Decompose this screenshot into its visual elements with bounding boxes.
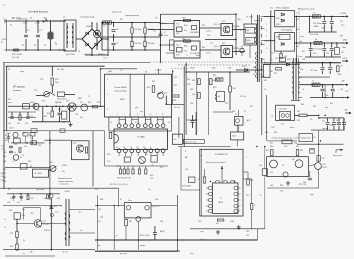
svg-text:С20 1000мк: С20 1000мк xyxy=(313,49,322,51)
svg-text:12: 12 xyxy=(120,70,122,72)
svg-text:L5: L5 xyxy=(312,81,314,83)
svg-text:R13 150к: R13 150к xyxy=(57,69,65,71)
svg-text:R38: R38 xyxy=(233,88,236,90)
svg-text:R11а: R11а xyxy=(184,46,188,48)
svg-text:Х2: Х2 xyxy=(174,139,176,141)
svg-text:С46: С46 xyxy=(284,146,287,148)
svg-text:9: 9 xyxy=(150,147,151,149)
svg-text:R33: R33 xyxy=(190,89,193,91)
svg-text:22н: 22н xyxy=(37,110,40,112)
svg-text:R48: R48 xyxy=(100,199,103,201)
svg-text:у вкл ТВ: у вкл ТВ xyxy=(152,206,159,208)
svg-text:С12: С12 xyxy=(296,19,299,21)
svg-text:С17: С17 xyxy=(340,66,343,68)
svg-text:С12: С12 xyxy=(296,13,299,15)
svg-text:х16В: х16В xyxy=(336,124,340,126)
svg-text:С11 1н: С11 1н xyxy=(206,53,211,55)
svg-text:С41: С41 xyxy=(322,121,325,123)
svg-text:упр. реле: упр. реле xyxy=(120,253,127,255)
svg-text:С16: С16 xyxy=(330,28,333,30)
svg-text:4: 4 xyxy=(137,114,138,116)
svg-text:R40: R40 xyxy=(3,156,6,158)
svg-text:петля: петля xyxy=(103,58,107,60)
svg-text:R26: R26 xyxy=(152,81,155,83)
svg-text:2: 2 xyxy=(124,114,125,116)
svg-text:8: 8 xyxy=(110,70,111,72)
svg-text:Т3.2: Т3.2 xyxy=(246,195,250,197)
svg-text:х160В: х160В xyxy=(313,26,319,28)
svg-text:R57: R57 xyxy=(297,111,300,113)
svg-text:ST1: ST1 xyxy=(120,19,123,21)
svg-text:КТ: КТ xyxy=(240,52,242,54)
svg-text:ВД8: ВД8 xyxy=(247,30,250,32)
svg-text:VD6: VD6 xyxy=(176,55,180,57)
svg-text:С43: С43 xyxy=(185,169,188,171)
svg-text:10н: 10н xyxy=(148,189,151,191)
svg-text:7: 7 xyxy=(156,114,157,116)
svg-text:С37 25мк: С37 25мк xyxy=(310,70,317,72)
svg-text:С31: С31 xyxy=(150,178,153,180)
svg-text:R43: R43 xyxy=(338,74,341,76)
svg-text:R13: R13 xyxy=(55,79,58,81)
svg-text:С39: С39 xyxy=(345,91,348,93)
svg-text:Др: Др xyxy=(300,41,302,43)
svg-text:Др1 2x10мГ: Др1 2x10мГ xyxy=(66,54,75,56)
svg-text:С2,2: С2,2 xyxy=(54,206,57,208)
svg-text:VT4: VT4 xyxy=(66,101,69,103)
svg-text:С19: С19 xyxy=(296,46,299,48)
svg-text:R14: R14 xyxy=(202,47,205,49)
svg-text:VD18: VD18 xyxy=(190,68,194,70)
svg-text:VD15: VD15 xyxy=(30,102,34,104)
svg-text:R47: R47 xyxy=(270,71,273,73)
svg-text:сеть: сеть xyxy=(200,231,204,233)
svg-text:R20 х160В: R20 х160В xyxy=(310,34,318,36)
svg-text:У4 ТЛ431: У4 ТЛ431 xyxy=(34,173,42,175)
svg-text:Т4 СТ-9: Т4 СТ-9 xyxy=(62,252,68,254)
svg-text:деж. кадр: деж. кадр xyxy=(299,184,306,186)
svg-text:R20: R20 xyxy=(97,102,100,104)
svg-text:С33: С33 xyxy=(98,209,101,211)
svg-text:контроллера: контроллера xyxy=(114,91,128,93)
svg-text:R33: R33 xyxy=(192,80,195,82)
svg-text:470: 470 xyxy=(270,172,273,174)
svg-text:R10: R10 xyxy=(182,18,185,20)
svg-text:С1Б: С1Б xyxy=(7,202,10,204)
svg-text:VT8: VT8 xyxy=(323,164,326,166)
svg-text:1,5к: 1,5к xyxy=(1,149,4,151)
svg-text:ТЛ: ТЛ xyxy=(271,116,273,118)
svg-text:R41: R41 xyxy=(52,171,55,173)
svg-text:VD15: VD15 xyxy=(58,109,62,111)
svg-text:Х4: Х4 xyxy=(145,72,147,74)
svg-text:R60: R60 xyxy=(270,146,273,148)
svg-text:Т1.1: Т1.1 xyxy=(176,24,180,26)
svg-text:R57: R57 xyxy=(297,120,300,122)
svg-text:У4: У4 xyxy=(22,155,24,157)
svg-text:С4: С4 xyxy=(78,51,80,53)
svg-text:R40: R40 xyxy=(253,67,256,69)
svg-text:R10а: R10а xyxy=(184,25,188,27)
svg-text:С38: С38 xyxy=(340,89,343,91)
svg-text:С8: С8 xyxy=(153,31,155,33)
svg-text:R8 430к: R8 430к xyxy=(148,43,155,45)
svg-text:+125В: +125В xyxy=(340,13,347,15)
svg-text:Х1: Х1 xyxy=(135,122,137,124)
svg-text:Модуль 2,1В: Модуль 2,1В xyxy=(301,137,310,139)
svg-text:С17: С17 xyxy=(340,21,343,23)
svg-text:X1: X1 xyxy=(10,25,12,27)
svg-text:Пр1 3,15А: Пр1 3,15А xyxy=(12,17,21,20)
svg-text:R56: R56 xyxy=(251,180,254,182)
svg-text:R59: R59 xyxy=(274,132,277,134)
svg-text:R27: R27 xyxy=(174,85,177,87)
svg-text:7: 7 xyxy=(266,42,267,44)
svg-text:У2: У2 xyxy=(235,114,237,116)
svg-text:VD20: VD20 xyxy=(5,135,9,137)
svg-text:R54: R54 xyxy=(10,233,13,235)
svg-text:размагничивание: размагничивание xyxy=(59,181,74,183)
svg-text:У2: У2 xyxy=(244,111,246,113)
svg-text:+: + xyxy=(328,124,329,126)
svg-text:С7: С7 xyxy=(164,32,166,34)
svg-text:Вход строчн.: Вход строчн. xyxy=(333,155,343,157)
svg-text:Позистор: Позистор xyxy=(112,12,122,14)
svg-text:С27: С27 xyxy=(174,77,177,79)
svg-text:С25: С25 xyxy=(3,152,6,154)
svg-text:R26: R26 xyxy=(147,87,150,89)
svg-text:упр.: упр. xyxy=(135,107,139,109)
svg-text:R53: R53 xyxy=(9,210,12,212)
svg-text:Т2 ТПИ: Т2 ТПИ xyxy=(246,17,253,19)
svg-text:1: 1 xyxy=(117,114,118,116)
svg-text:С21: С21 xyxy=(326,53,329,55)
svg-text:У5: У5 xyxy=(146,154,148,156)
svg-text:IC ТДА8: IC ТДА8 xyxy=(137,135,145,138)
svg-text:+18В: +18В xyxy=(342,40,347,42)
svg-text:режима: режима xyxy=(13,90,22,92)
svg-text:R14 1,5: R14 1,5 xyxy=(214,46,220,48)
svg-text:R5 120к: R5 120к xyxy=(135,29,142,31)
svg-text:1к: 1к xyxy=(23,253,25,255)
svg-text:R50 5,1к/1Вт: R50 5,1к/1Вт xyxy=(140,235,150,237)
svg-text:14: 14 xyxy=(116,147,118,149)
svg-text:R64: R64 xyxy=(280,185,283,187)
svg-text:Т2.2: Т2.2 xyxy=(270,8,274,10)
svg-text:С47: С47 xyxy=(322,158,325,160)
svg-text:R18: R18 xyxy=(296,29,299,31)
svg-text:С35: С35 xyxy=(228,68,231,70)
svg-text:R39: R39 xyxy=(30,138,33,140)
svg-text:+: + xyxy=(348,69,349,71)
svg-text:Т1: Т1 xyxy=(186,55,188,57)
svg-text:R19: R19 xyxy=(340,36,343,38)
svg-text:R39: R39 xyxy=(38,145,41,147)
svg-text:Х3: Х3 xyxy=(8,69,10,71)
svg-text:R62: R62 xyxy=(266,150,269,152)
svg-text:L7: L7 xyxy=(313,13,315,15)
svg-text:VD8 КД226: VD8 КД226 xyxy=(190,32,199,34)
svg-text:22н: 22н xyxy=(22,209,25,211)
svg-text:Т1.2: Т1.2 xyxy=(176,45,180,47)
svg-text:5: 5 xyxy=(144,114,145,116)
svg-text:Обратная связь: Обратная связь xyxy=(185,142,197,144)
svg-text:х275В: х275В xyxy=(35,23,40,25)
svg-text:R37: R37 xyxy=(5,140,8,142)
svg-text:С8: С8 xyxy=(155,18,157,20)
svg-text:R37: R37 xyxy=(250,106,253,108)
svg-text:R11: R11 xyxy=(182,39,185,41)
svg-text:VT6: VT6 xyxy=(164,93,167,95)
svg-text:Т4.2: Т4.2 xyxy=(78,212,82,214)
svg-text:КТ3102: КТ3102 xyxy=(43,224,49,226)
svg-text:R15: R15 xyxy=(17,123,20,125)
svg-text:У3 ТЛ431: У3 ТЛ431 xyxy=(279,109,287,111)
svg-text:общ.: общ. xyxy=(97,245,101,247)
svg-text:L8: L8 xyxy=(315,39,317,41)
svg-text:7: 7 xyxy=(246,157,247,159)
svg-text:10н: 10н xyxy=(80,117,83,119)
svg-text:Сетевой фильтр: Сетевой фильтр xyxy=(28,10,48,14)
svg-text:Др1: Др1 xyxy=(44,18,47,20)
svg-text:1: 1 xyxy=(107,79,108,81)
svg-text:R35: R35 xyxy=(150,175,153,177)
svg-text:С22: С22 xyxy=(22,133,25,135)
svg-text:С24: С24 xyxy=(75,114,78,116)
svg-text:10: 10 xyxy=(143,147,145,149)
svg-text:2,2н: 2,2н xyxy=(98,221,101,223)
svg-text:10к: 10к xyxy=(62,171,65,173)
svg-text:С10 1н: С10 1н xyxy=(206,31,211,33)
svg-text:3: 3 xyxy=(107,109,108,111)
svg-text:Вход "питания и защиты": Вход "питания и защиты" xyxy=(206,162,226,164)
svg-text:7.1-7: 7.1-7 xyxy=(2,5,6,7)
svg-text:а2: а2 xyxy=(168,122,170,124)
svg-text:R61: R61 xyxy=(296,146,299,148)
svg-text:1мкФ: 1мкФ xyxy=(164,34,169,37)
svg-text:С48: С48 xyxy=(270,185,273,187)
svg-text:КТ817: КТ817 xyxy=(323,167,328,169)
svg-text:R37: R37 xyxy=(225,103,228,105)
svg-text:VT2: VT2 xyxy=(222,43,225,45)
svg-text:R6 120к: R6 120к xyxy=(135,43,142,45)
svg-text:R47: R47 xyxy=(274,73,277,75)
svg-text:R42: R42 xyxy=(28,161,31,163)
svg-text:С14: С14 xyxy=(25,123,28,125)
svg-text:ПР2: ПР2 xyxy=(198,221,201,223)
svg-text:С9а: С9а xyxy=(184,30,187,32)
svg-text:R30: R30 xyxy=(107,154,110,156)
svg-text:С34: С34 xyxy=(190,103,193,105)
svg-text:УГ: УГ xyxy=(220,198,222,200)
svg-text:8: 8 xyxy=(162,114,163,116)
svg-text:R1: R1 xyxy=(22,45,24,47)
svg-text:строчн.: строчн. xyxy=(322,128,328,130)
svg-text:С40: С40 xyxy=(259,165,262,167)
svg-text:размагн.: размагн. xyxy=(98,54,106,56)
svg-text:R12: R12 xyxy=(202,25,205,27)
svg-text:VT9: VT9 xyxy=(160,167,163,169)
svg-text:U1: U1 xyxy=(80,102,82,104)
svg-text:С3: С3 xyxy=(44,45,46,47)
svg-text:3,3к: 3,3к xyxy=(95,189,98,191)
svg-text:R2: R2 xyxy=(34,45,36,47)
svg-text:С37: С37 xyxy=(232,111,235,113)
svg-text:КТ3102: КТ3102 xyxy=(44,230,50,232)
svg-text:3: 3 xyxy=(266,30,267,32)
svg-text:R45: R45 xyxy=(313,106,316,108)
svg-text:2,2: 2,2 xyxy=(12,161,14,163)
svg-text:кинескопа: кинескопа xyxy=(60,184,68,186)
svg-text:С28: С28 xyxy=(187,84,190,86)
svg-text:0,1мк: 0,1мк xyxy=(23,23,27,25)
svg-text:соед.: соед. xyxy=(20,71,25,73)
svg-text:+: + xyxy=(326,59,327,61)
svg-text:13: 13 xyxy=(123,147,125,149)
svg-text:терморезистор: терморезистор xyxy=(125,15,140,17)
svg-text:+: + xyxy=(333,91,334,93)
svg-text:КД226: КД226 xyxy=(247,40,252,42)
svg-text:5: 5 xyxy=(266,36,267,38)
svg-text:Т4: Т4 xyxy=(60,206,62,208)
svg-text:+: + xyxy=(322,123,323,125)
svg-text:С15 220мк: С15 220мк xyxy=(313,23,322,25)
svg-text:цепь разм.: цепь разм. xyxy=(36,189,45,191)
svg-text:У1: У1 xyxy=(88,96,90,98)
svg-text:R4: R4 xyxy=(98,30,100,32)
svg-text:R22: R22 xyxy=(44,116,47,118)
svg-text:СЗЗ: СЗЗ xyxy=(107,161,110,163)
svg-text:R17: R17 xyxy=(8,99,11,101)
svg-text:10к: 10к xyxy=(24,146,27,148)
svg-text:Отклоняющая систем. 2,1 В: Отклоняющая систем. 2,1 В xyxy=(272,138,299,140)
svg-text:FU1 3,15А: FU1 3,15А xyxy=(12,53,22,56)
svg-text:С36: С36 xyxy=(300,69,303,71)
svg-text:R63: R63 xyxy=(300,150,303,152)
svg-text:С22: С22 xyxy=(341,52,344,54)
svg-text:R29: R29 xyxy=(187,79,190,81)
svg-text:10мк: 10мк xyxy=(342,47,346,49)
svg-text:К1: К1 xyxy=(120,199,122,201)
svg-text:конт: конт xyxy=(140,111,144,113)
svg-text:VT5: VT5 xyxy=(73,143,76,145)
svg-text:С9б: С9б xyxy=(184,51,187,53)
svg-text:Др: Др xyxy=(55,43,57,45)
svg-text:Сетевой выпр.: Сетевой выпр. xyxy=(80,16,95,19)
svg-text:R43: R43 xyxy=(3,169,6,171)
svg-text:R60: R60 xyxy=(270,143,273,145)
svg-text:КЦ405: КЦ405 xyxy=(86,26,93,28)
svg-text:С26: С26 xyxy=(3,161,6,163)
svg-text:6: 6 xyxy=(150,114,151,116)
svg-text:Х5: Х5 xyxy=(8,189,10,191)
svg-text:1: 1 xyxy=(266,24,267,26)
svg-text:R12 1,5: R12 1,5 xyxy=(214,24,220,26)
svg-text:КТ872А: КТ872А xyxy=(233,25,240,28)
svg-text:С23: С23 xyxy=(40,79,43,81)
svg-text:4,7н: 4,7н xyxy=(17,202,20,204)
svg-text:3,3: 3,3 xyxy=(264,89,266,91)
svg-text:цепь: цепь xyxy=(290,127,294,129)
svg-text:6,8к: 6,8к xyxy=(281,124,284,126)
svg-text:VT1: VT1 xyxy=(222,21,225,23)
svg-text:VD13 КД213: VD13 КД213 xyxy=(281,30,292,32)
svg-text:кадр: кадр xyxy=(310,194,314,196)
svg-text:R21 омк: R21 омк xyxy=(296,56,303,58)
svg-text:вых.: вых. xyxy=(325,107,329,109)
svg-text:VD10: VD10 xyxy=(276,24,280,26)
svg-text:С16: С16 xyxy=(30,116,33,118)
svg-text:0,1мк: 0,1мк xyxy=(162,23,167,25)
svg-text:а: а xyxy=(259,19,260,21)
svg-text:VD16: VD16 xyxy=(287,59,291,61)
svg-text:R19: R19 xyxy=(88,102,91,104)
svg-text:С28: С28 xyxy=(3,181,6,183)
svg-text:Схема ШИМ: Схема ШИМ xyxy=(114,87,127,89)
svg-text:С23: С23 xyxy=(14,144,17,146)
svg-text:СР1: СР1 xyxy=(100,217,103,219)
svg-text:POWERBOOK: POWERBOOK xyxy=(215,154,228,156)
svg-text:Др2: Др2 xyxy=(213,75,216,77)
svg-text:ВД23: ВД23 xyxy=(160,231,164,233)
svg-text:цепи: цепи xyxy=(300,36,304,38)
svg-text:СР: СР xyxy=(116,236,118,238)
svg-text:С45: С45 xyxy=(246,231,249,233)
svg-text:~220: ~220 xyxy=(1,39,7,41)
svg-text:VD9: VD9 xyxy=(276,18,279,20)
svg-text:С30: С30 xyxy=(30,213,33,215)
svg-text:КТ502: КТ502 xyxy=(62,165,67,167)
svg-text:VT7: VT7 xyxy=(43,221,46,223)
svg-text:а1: а1 xyxy=(110,122,112,124)
svg-text:2х4,7н: 2х4,7н xyxy=(9,128,14,130)
svg-text:3к: 3к xyxy=(23,240,25,242)
svg-text:С27 н15: С27 н15 xyxy=(174,107,180,109)
svg-text:Т4.1: Т4.1 xyxy=(55,212,59,214)
svg-text:У-1005: У-1005 xyxy=(64,191,70,193)
svg-text:VD22: VD22 xyxy=(232,136,236,138)
svg-text:С29: С29 xyxy=(30,198,33,200)
svg-text:R42: R42 xyxy=(264,80,267,82)
svg-text:КТ: КТ xyxy=(240,30,242,32)
svg-text:R31 910 С29 1н R32 1к: R31 910 С29 1н R32 1к xyxy=(110,184,128,186)
svg-text:0,22мк: 0,22мк xyxy=(200,239,205,241)
svg-text:Автоматическое: Автоматическое xyxy=(59,177,73,180)
svg-text:9: 9 xyxy=(266,48,267,50)
svg-text:4,7н: 4,7н xyxy=(1,146,4,148)
svg-text:R28: R28 xyxy=(173,100,176,102)
svg-text:VT3: VT3 xyxy=(34,90,37,92)
svg-text:С20: С20 xyxy=(313,53,316,55)
svg-text:12: 12 xyxy=(130,147,132,149)
svg-text:150к: 150к xyxy=(55,82,59,84)
svg-text:S1: S1 xyxy=(30,18,32,20)
svg-text:R16: R16 xyxy=(47,113,50,115)
svg-text:У6: У6 xyxy=(44,198,46,200)
svg-text:VD13: VD13 xyxy=(276,37,280,39)
svg-text:0,5: 0,5 xyxy=(186,42,188,44)
svg-text:VD19: VD19 xyxy=(242,66,247,68)
svg-text:VT4: VT4 xyxy=(42,101,45,103)
svg-text:R36: R36 xyxy=(212,68,215,70)
svg-text:С38: С38 xyxy=(325,95,328,97)
svg-text:ДР3: ДР3 xyxy=(213,87,216,89)
svg-text:FU2: FU2 xyxy=(216,223,219,225)
svg-text:R58: R58 xyxy=(265,132,268,134)
svg-text:R51: R51 xyxy=(20,198,23,200)
svg-text:С34: С34 xyxy=(192,94,195,96)
svg-text:+: + xyxy=(350,89,351,91)
